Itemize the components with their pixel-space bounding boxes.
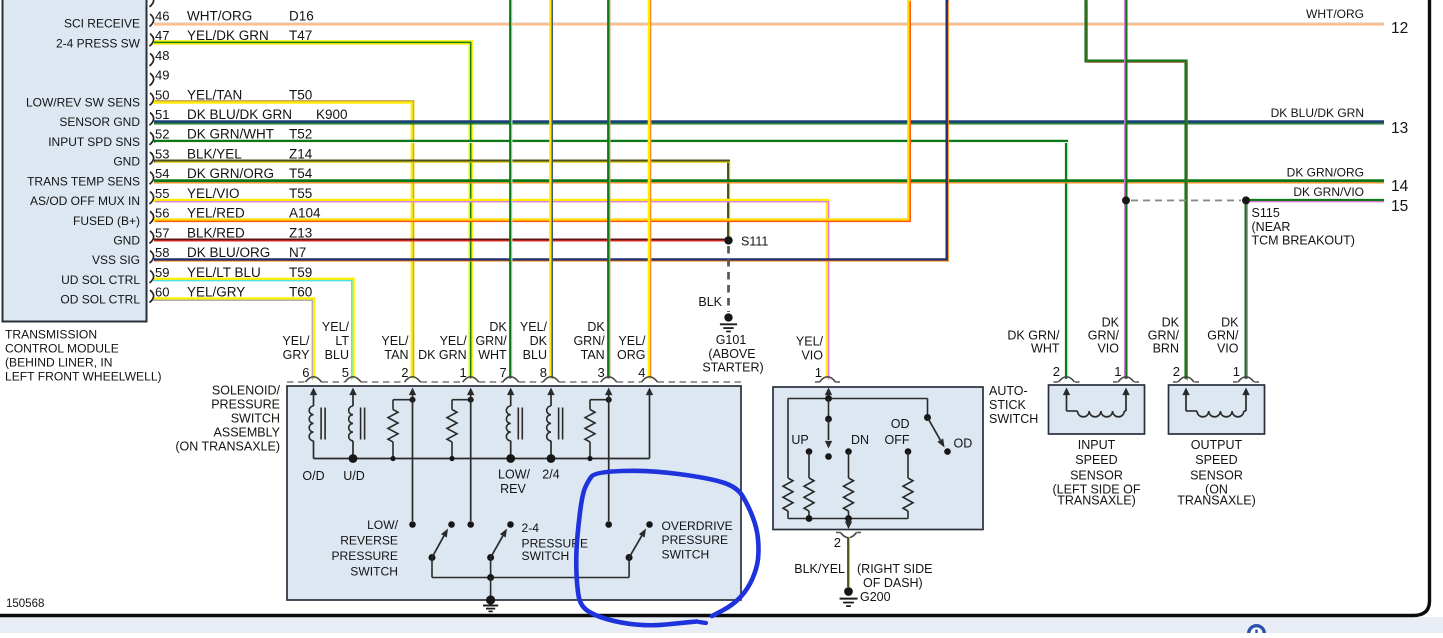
TCM connector pin 54 — [27, 166, 313, 188]
TCM connector pin 50 — [26, 87, 312, 109]
svg-text:G101: G101 — [716, 333, 747, 347]
TCM connector pin 53 — [113, 146, 312, 168]
svg-text:6: 6 — [302, 365, 309, 380]
svg-text:DK GRN: DK GRN — [418, 348, 467, 362]
svg-text:49: 49 — [155, 68, 169, 83]
TCM connector pin 45 — [150, 0, 154, 7]
svg-text:55: 55 — [155, 186, 169, 201]
document number label 150568 — [6, 598, 44, 610]
svg-text:AS/OD OFF MUX IN: AS/OD OFF MUX IN — [30, 194, 140, 208]
svg-text:53: 53 — [155, 146, 169, 161]
wire 58 DK BLU/ORG up to top edge — [154, 0, 948, 261]
svg-text:SWITCH: SWITCH — [989, 412, 1038, 426]
svg-text:INPUT: INPUT — [1078, 438, 1116, 452]
svg-text:AUTO-: AUTO- — [989, 384, 1028, 398]
autostick internal top bus — [788, 388, 928, 402]
svg-text:60: 60 — [155, 284, 169, 299]
svg-text:48: 48 — [155, 48, 169, 63]
wire 46 WHT/ORG to right edge (net 12) — [154, 7, 1408, 37]
pin 1 feed line down to 2-4 switch — [467, 388, 474, 522]
svg-text:TAN: TAN — [384, 348, 408, 362]
splice S111 — [724, 235, 768, 249]
svg-text:BLK: BLK — [698, 295, 722, 309]
wire 54 DK GRN/ORG to right edge (net 14) — [154, 166, 1409, 196]
svg-text:13: 13 — [1391, 120, 1408, 137]
svg-text:PRESSURE: PRESSURE — [662, 533, 729, 547]
svg-text:1: 1 — [1233, 364, 1240, 379]
svg-text:T55: T55 — [289, 186, 312, 201]
svg-text:YEL/GRY: YEL/GRY — [187, 284, 245, 299]
svg-text:GRN/: GRN/ — [475, 334, 507, 348]
solenoid connector pin 1 — [418, 334, 479, 382]
svg-text:Z14: Z14 — [289, 146, 313, 161]
svg-text:SENSOR: SENSOR — [1070, 469, 1123, 483]
svg-text:YEL/: YEL/ — [381, 334, 409, 348]
case ground under solenoid box — [483, 595, 498, 611]
svg-text:7: 7 — [499, 365, 506, 380]
svg-text:WHT/ORG: WHT/ORG — [187, 8, 252, 23]
svg-text:OD SOL CTRL: OD SOL CTRL — [60, 293, 140, 307]
svg-text:2: 2 — [834, 535, 841, 550]
svg-text:T54: T54 — [289, 166, 313, 181]
2-4 pressure switch — [467, 521, 588, 578]
wire DK GRN/BRN from top to output speed sensor pin 2 — [1086, 0, 1187, 380]
svg-text:G200: G200 — [860, 590, 891, 604]
svg-text:DK GRN/WHT: DK GRN/WHT — [187, 127, 274, 142]
low/reverse pressure switch — [331, 518, 454, 579]
svg-text:YEL/VIO: YEL/VIO — [187, 186, 240, 201]
svg-text:3: 3 — [597, 365, 604, 380]
svg-text:DK: DK — [1162, 316, 1180, 330]
wire DK GRN/VIO from top through splice S115 to input speed sensor pin 1 — [1125, 0, 1126, 379]
wire 57 BLK/RED to splice S111 — [154, 240, 725, 241]
svg-text:GRN/: GRN/ — [1148, 329, 1180, 343]
svg-text:SWITCH: SWITCH — [350, 565, 398, 579]
wire 56 YEL/RED up to top edge — [154, 0, 910, 221]
svg-text:YEL/: YEL/ — [282, 334, 310, 348]
pin 3 feed line down to overdrive switch — [605, 388, 612, 522]
wire 47 YEL/DK GRN to solenoid pin 1 — [154, 42, 471, 378]
wire 52 DK GRN/WHT to input speed sensor pin 2 — [154, 141, 1068, 380]
wire DK GRN/WHT from top to solenoid pin 7 — [511, 0, 512, 379]
svg-text:SPEED: SPEED — [1195, 453, 1237, 467]
svg-text:1: 1 — [815, 365, 822, 380]
svg-text:DK: DK — [587, 320, 605, 334]
svg-text:SCI RECEIVE: SCI RECEIVE — [64, 17, 140, 31]
svg-text:YEL/: YEL/ — [322, 320, 350, 334]
svg-text:SOLENOID/: SOLENOID/ — [212, 384, 281, 398]
svg-text:T60: T60 — [289, 284, 312, 299]
wire DK GRN/TAN from top to solenoid pin 3 — [609, 0, 610, 379]
svg-text:SWITCH: SWITCH — [662, 548, 710, 562]
svg-text:ASSEMBLY: ASSEMBLY — [214, 426, 281, 440]
autostick UP resistor — [804, 452, 814, 519]
svg-text:TRANSMISSION: TRANSMISSION — [5, 328, 97, 342]
svg-text:51: 51 — [155, 107, 169, 122]
autostick pin 2 — [834, 533, 861, 551]
svg-text:UP: UP — [791, 433, 808, 447]
svg-text:46: 46 — [155, 8, 169, 23]
wire 51 DK BLU/DK GRN to right edge (net 13) — [154, 106, 1408, 137]
2/4 solenoid coil — [542, 388, 562, 482]
svg-text:BLU: BLU — [325, 348, 349, 362]
svg-text:(RIGHT SIDE: (RIGHT SIDE — [857, 562, 932, 576]
svg-text:T52: T52 — [289, 127, 312, 142]
svg-text:12: 12 — [1391, 20, 1408, 37]
svg-text:8: 8 — [540, 365, 547, 380]
wire 53 BLK/YEL to splice S111 — [154, 161, 730, 239]
svg-text:PRESSURE: PRESSURE — [211, 398, 280, 412]
wire YEL/ORG from top to solenoid pin 4 — [650, 0, 651, 379]
svg-text:2: 2 — [1173, 364, 1180, 379]
svg-text:DK GRN/ORG: DK GRN/ORG — [187, 166, 274, 181]
svg-text:DK GRN/: DK GRN/ — [1007, 329, 1060, 343]
svg-text:(NEAR: (NEAR — [1252, 220, 1291, 234]
svg-text:DK BLU/DK GRN: DK BLU/DK GRN — [1271, 106, 1364, 120]
svg-text:YEL/: YEL/ — [618, 334, 646, 348]
svg-text:K900: K900 — [316, 107, 348, 122]
TCM connector pin 58 — [92, 245, 306, 267]
svg-text:CONTROL MODULE: CONTROL MODULE — [5, 342, 119, 356]
svg-text:VSS SIG: VSS SIG — [92, 253, 140, 267]
autostick pull-up resistor — [783, 399, 793, 519]
resistor on pin 2 branch — [388, 397, 416, 459]
solenoid connector pin 7 — [475, 320, 518, 382]
svg-text:TRANSAXLE): TRANSAXLE) — [1057, 494, 1136, 508]
svg-text:DK BLU/DK GRN: DK BLU/DK GRN — [187, 107, 292, 122]
svg-text:OD: OD — [891, 417, 910, 431]
autostick bottom bus — [788, 515, 908, 529]
svg-text:BLK/RED: BLK/RED — [187, 225, 245, 240]
TCM connector pin 57 — [113, 225, 312, 247]
solenoid/pressure switch assembly box (ON TRANSAXLE) — [175, 384, 741, 601]
svg-text:WHT: WHT — [478, 348, 507, 362]
svg-text:YEL/LT BLU: YEL/LT BLU — [187, 265, 261, 280]
svg-text:DK GRN/ORG: DK GRN/ORG — [1287, 166, 1364, 180]
svg-text:LEFT FRONT WHEELWELL): LEFT FRONT WHEELWELL) — [5, 370, 162, 384]
wire DK GRN/VIO to right edge (net 15) — [1246, 185, 1408, 215]
svg-text:2: 2 — [401, 365, 408, 380]
svg-text:57: 57 — [155, 225, 169, 240]
blue highlight circle annotation around overdrive pressure switch — [576, 471, 758, 625]
svg-text:STARTER): STARTER) — [702, 361, 763, 375]
svg-text:OVERDRIVE: OVERDRIVE — [662, 519, 733, 533]
TCM connector pin 48 — [150, 48, 170, 66]
svg-text:TRANSAXLE): TRANSAXLE) — [1177, 494, 1256, 508]
TCM connector pin 55 — [30, 186, 312, 208]
svg-text:BLU: BLU — [523, 348, 547, 362]
svg-text:1: 1 — [459, 365, 466, 380]
svg-text:56: 56 — [155, 206, 169, 221]
svg-text:REV: REV — [500, 482, 526, 496]
svg-text:INPUT SPD SNS: INPUT SPD SNS — [48, 135, 140, 149]
svg-text:GRY: GRY — [283, 348, 311, 362]
wire 50 YEL/TAN to solenoid pin 2 — [154, 101, 414, 379]
wire BLK/YEL from autostick pin 2 to ground G200 — [794, 537, 932, 590]
svg-text:2-4 PRESS SW: 2-4 PRESS SW — [56, 36, 141, 50]
O/D solenoid coil — [302, 388, 325, 484]
svg-text:DK: DK — [489, 320, 507, 334]
svg-text:4: 4 — [638, 365, 645, 380]
svg-text:58: 58 — [155, 245, 169, 260]
svg-text:OF DASH): OF DASH) — [863, 576, 923, 590]
svg-text:SWITCH: SWITCH — [522, 549, 570, 563]
svg-text:BLK/YEL: BLK/YEL — [187, 146, 242, 161]
svg-text:SPEED: SPEED — [1075, 453, 1117, 467]
solenoid common bus — [314, 454, 650, 463]
svg-text:LOW/REV SW SENS: LOW/REV SW SENS — [26, 95, 140, 109]
svg-text:D16: D16 — [289, 8, 314, 23]
svg-text:OUTPUT: OUTPUT — [1191, 438, 1243, 452]
svg-text:DK: DK — [530, 334, 548, 348]
U/D solenoid coil — [343, 388, 365, 484]
svg-text:BRN: BRN — [1153, 342, 1179, 356]
svg-text:WHT: WHT — [1031, 342, 1060, 356]
svg-text:150568: 150568 — [6, 598, 44, 610]
solenoid connector pin 4 — [617, 334, 657, 382]
svg-text:GND: GND — [113, 155, 140, 169]
wire BLK from S111 to ground G101 — [698, 246, 728, 312]
TCM connector pin 46 — [64, 8, 314, 30]
pin 2 feed line down to low/reverse switch — [409, 388, 416, 522]
LOW/REV solenoid coil — [498, 388, 530, 497]
overdrive pressure switch — [605, 519, 732, 578]
svg-text:YEL/: YEL/ — [440, 334, 468, 348]
svg-text:YEL/: YEL/ — [520, 320, 548, 334]
svg-text:GRN/: GRN/ — [1207, 329, 1239, 343]
svg-text:U/D: U/D — [343, 469, 365, 483]
svg-text:TRANS TEMP SENS: TRANS TEMP SENS — [27, 174, 140, 188]
svg-text:5: 5 — [342, 365, 349, 380]
svg-text:OFF: OFF — [885, 433, 910, 447]
svg-text:2/4: 2/4 — [542, 468, 559, 482]
TCM connector pin 52 — [48, 127, 312, 149]
wire YEL/DK BLU from top to solenoid pin 8 — [551, 0, 552, 379]
svg-text:(BEHIND LINER, IN: (BEHIND LINER, IN — [5, 356, 113, 370]
svg-text:1: 1 — [1114, 364, 1121, 379]
solenoid connector pin 5 — [322, 320, 361, 382]
svg-text:GRN/: GRN/ — [573, 334, 605, 348]
svg-text:DK GRN/VIO: DK GRN/VIO — [1293, 185, 1364, 199]
TCM connector pin 47 — [56, 28, 312, 50]
svg-text:54: 54 — [155, 166, 169, 181]
autostick OD OFF resistor — [885, 417, 914, 519]
autostick up/down selector switch — [791, 399, 869, 460]
svg-text:BLK/YEL: BLK/YEL — [794, 562, 845, 576]
solenoid connector dashed edge — [287, 381, 741, 383]
svg-text:STICK: STICK — [989, 398, 1026, 412]
svg-text:2: 2 — [1053, 364, 1060, 379]
wire 55 YEL/VIO to autostick switch pin 1 — [154, 201, 829, 380]
svg-text:(ABOVE: (ABOVE — [708, 347, 755, 361]
TCM connector pin 56 — [73, 206, 321, 228]
svg-text:15: 15 — [1391, 198, 1408, 215]
solenoid connector pin 6 — [282, 334, 321, 382]
pressure switch common bus to case ground — [432, 574, 629, 600]
output speed sensor — [1148, 316, 1265, 508]
ground G101 (ABOVE STARTER) — [702, 313, 763, 374]
svg-text:(ON TRANSAXLE): (ON TRANSAXLE) — [175, 440, 280, 454]
svg-text:VIO: VIO — [1097, 342, 1119, 356]
input speed sensor — [1007, 316, 1144, 508]
TCM connector pin 49 — [150, 68, 170, 86]
svg-text:LT: LT — [335, 334, 349, 348]
TCM module box: TRANSMISSION CONTROL MODULE — [3, 0, 162, 384]
solenoid connector pin 8 — [520, 320, 559, 382]
autostick OD switch — [924, 399, 972, 455]
svg-text:S115: S115 — [1252, 206, 1280, 220]
svg-text:SENSOR GND: SENSOR GND — [59, 115, 140, 129]
svg-text:UD SOL CTRL: UD SOL CTRL — [61, 273, 140, 287]
svg-text:TAN: TAN — [581, 348, 605, 362]
svg-text:VIO: VIO — [801, 349, 823, 363]
svg-text:S111: S111 — [741, 235, 768, 249]
solenoid connector pin 3 — [573, 320, 616, 382]
svg-text:O/D: O/D — [302, 469, 324, 483]
svg-text:YEL/: YEL/ — [796, 335, 824, 349]
resistor on pin 1 branch — [447, 397, 474, 459]
svg-text:59: 59 — [155, 265, 169, 280]
wire DK GRN/VIO from splice S115 to output speed sensor pin 1 — [1246, 200, 1247, 379]
svg-text:DK BLU/ORG: DK BLU/ORG — [187, 245, 270, 260]
TCM connector pin 60 — [60, 284, 312, 306]
svg-text:DK: DK — [1102, 316, 1120, 330]
wire 59 YEL/LT BLU to solenoid pin 5 — [153, 279, 353, 379]
svg-text:OD: OD — [954, 437, 973, 451]
svg-text:WHT/ORG: WHT/ORG — [1306, 7, 1364, 21]
svg-text:PRESSURE: PRESSURE — [331, 549, 398, 563]
svg-text:FUSED (B+): FUSED (B+) — [73, 214, 140, 228]
svg-text:N7: N7 — [289, 245, 306, 260]
TCM connector pin 51 — [59, 107, 347, 129]
svg-text:SWITCH: SWITCH — [231, 412, 280, 426]
svg-text:LOW/: LOW/ — [367, 518, 399, 532]
autostick switch box — [773, 384, 1038, 530]
svg-text:ORG: ORG — [617, 348, 645, 362]
svg-text:SENSOR: SENSOR — [1190, 469, 1243, 483]
svg-text:TCM BREAKOUT): TCM BREAKOUT) — [1252, 234, 1355, 248]
autostick DN resistor — [844, 452, 854, 519]
svg-text:YEL/RED: YEL/RED — [187, 206, 245, 221]
resistor on pin 3 branch — [585, 397, 612, 459]
wire 60 YEL/GRY to solenoid pin 6 — [153, 299, 314, 380]
svg-text:GRN/: GRN/ — [1088, 329, 1120, 343]
svg-text:GND: GND — [113, 234, 140, 248]
svg-text:LOW/: LOW/ — [498, 468, 530, 482]
svg-text:VIO: VIO — [1217, 342, 1239, 356]
ground G200 (RIGHT SIDE OF DASH) — [840, 587, 891, 606]
svg-text:DN: DN — [851, 433, 869, 447]
pin 4 common return line — [646, 388, 653, 459]
svg-text:2-4: 2-4 — [522, 521, 540, 535]
svg-text:REVERSE: REVERSE — [340, 534, 398, 548]
svg-text:T59: T59 — [289, 265, 312, 280]
autostick pin 1 — [796, 335, 840, 383]
svg-text:Z13: Z13 — [289, 225, 312, 240]
svg-text:DK: DK — [1221, 316, 1239, 330]
solenoid connector pin 2 — [381, 334, 420, 382]
svg-text:A104: A104 — [289, 206, 321, 221]
TCM connector pin 59 — [61, 265, 312, 287]
splice S115 (NEAR TCM BREAKOUT) — [1122, 196, 1355, 247]
svg-text:14: 14 — [1391, 178, 1409, 195]
svg-text:52: 52 — [155, 127, 169, 142]
